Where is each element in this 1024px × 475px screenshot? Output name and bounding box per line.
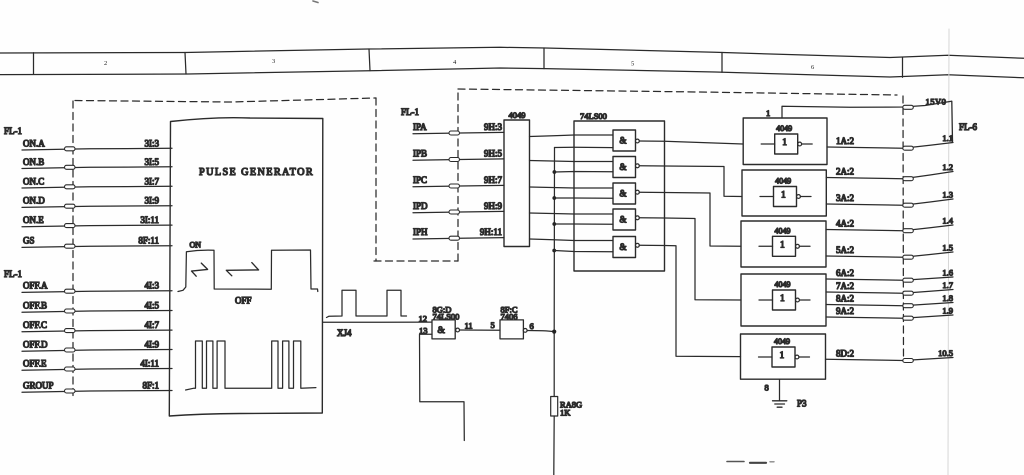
wire OFF.A	[22, 291, 172, 293]
svg-text:1.8: 1.8	[942, 293, 953, 303]
buffer U2A input stub	[760, 196, 774, 198]
wire U5A pin 8 to ground	[779, 379, 781, 400]
buffer U4A (4049) box	[741, 274, 826, 326]
svg-text:1: 1	[766, 108, 770, 118]
wire OFF.B	[22, 311, 172, 313]
svg-text:FL-1: FL-1	[4, 269, 22, 279]
connector pin symbol 3A:2	[903, 203, 914, 207]
svg-text:OFF.E: OFF.E	[23, 359, 47, 369]
FL-6 connector dashed boundary	[902, 96, 905, 361]
buffer U3A output stub	[800, 245, 811, 247]
buffer U1A input stub	[761, 143, 775, 145]
border zone tick 6	[902, 58, 904, 77]
waveform ON/OFF	[178, 250, 318, 292]
connector pin symbol OFF.B	[65, 309, 76, 313]
wire enable branch to G3	[554, 197, 613, 199]
svg-text:1.2: 1.2	[942, 162, 953, 172]
svg-text:7406: 7406	[501, 312, 518, 322]
gate G3 output bubble	[636, 190, 640, 194]
connector pin symbol 5A:2	[903, 255, 914, 259]
svg-text:1.1: 1.1	[942, 133, 953, 143]
NAND gate G2 box	[613, 157, 636, 178]
svg-text:9H:9: 9H:9	[484, 201, 503, 211]
gate G4 output bubble	[636, 216, 640, 220]
svg-text:6A:2: 6A:2	[836, 268, 854, 278]
svg-text:1.3: 1.3	[942, 190, 953, 200]
connector pin symbol ON.A	[65, 147, 76, 151]
svg-text:3: 3	[272, 58, 275, 65]
svg-text:4I:3: 4I:3	[145, 281, 160, 291]
buffer U3A (4049) box	[741, 221, 826, 267]
scan mark bottom 3	[770, 461, 774, 463]
svg-text:3I:11: 3I:11	[140, 215, 159, 225]
ground symbol	[773, 401, 787, 407]
svg-text:4I:7: 4I:7	[145, 320, 160, 330]
svg-text:1.5: 1.5	[942, 243, 953, 253]
connector pin symbol 8A:2	[903, 304, 914, 308]
buffer U3A output bubble	[796, 244, 800, 248]
svg-text:74LS00: 74LS00	[433, 312, 460, 322]
connector pin symbol OFF.E	[65, 367, 76, 371]
IC U-74LS00 block box	[574, 121, 665, 271]
wire 4049 output 2 to NAND input	[530, 161, 614, 162]
wire IPH	[413, 238, 504, 239]
gate 8G:D output bubble	[456, 328, 460, 332]
pulse generator block U-PG	[169, 118, 322, 416]
wire gate output 11 to 7406 pin 5	[460, 329, 501, 331]
wire GS	[22, 246, 172, 248]
page fold line	[948, 29, 949, 475]
svg-text:PULSE GENERATOR: PULSE GENERATOR	[199, 167, 314, 178]
svg-text:4049: 4049	[775, 280, 791, 289]
NAND gate G1 box	[613, 130, 636, 151]
connector pin symbol IPH	[449, 236, 460, 240]
svg-text:&: &	[620, 189, 627, 199]
buffer U5A (4049) box	[741, 334, 826, 379]
svg-text:IPB: IPB	[413, 149, 427, 159]
wire G1 output to U1A	[639, 141, 743, 144]
svg-text:8: 8	[765, 383, 769, 393]
connector pin symbol 9A:2	[903, 316, 914, 320]
svg-text:3A:2: 3A:2	[836, 193, 854, 203]
svg-text:4049: 4049	[775, 226, 791, 235]
junction node g3 input	[552, 196, 556, 200]
connector pin symbol 7A:2	[903, 291, 914, 295]
svg-text:1.7: 1.7	[942, 280, 953, 290]
svg-text:3I:7: 3I:7	[145, 176, 160, 186]
wire 4049 output 5 to NAND input	[530, 239, 614, 241]
buffer U2A (4049) box	[742, 170, 826, 216]
connector pin symbol 2A:2	[903, 177, 914, 181]
wire enable branch to G5	[554, 251, 613, 252]
wire 8D:2	[826, 358, 954, 361]
svg-text:12: 12	[419, 314, 428, 324]
svg-text:9H:7: 9H:7	[484, 175, 503, 185]
wire 1A:2	[827, 143, 953, 149]
connector pin symbol GROUP	[65, 389, 76, 393]
svg-text:1: 1	[780, 294, 785, 304]
connector pin symbol IPA	[449, 131, 460, 135]
gate G1 output bubble	[636, 139, 640, 143]
wire IPA	[413, 132, 504, 133]
buffer 8F:C output bubble	[523, 329, 527, 333]
svg-text:OFF.B: OFF.B	[23, 301, 47, 311]
wire 8A:2	[826, 303, 953, 306]
junction node N1	[552, 330, 556, 334]
svg-text:8F:1: 8F:1	[142, 381, 159, 391]
dashed box top edge right section	[458, 89, 897, 95]
svg-text:4049: 4049	[509, 110, 526, 120]
connector pin symbol 6A:2	[903, 278, 914, 282]
buffer U8F:C box	[500, 320, 523, 339]
border zone tick 3	[369, 49, 370, 71]
wire G4 output to U4A	[639, 218, 741, 300]
wire G3 output to U3A	[639, 192, 741, 246]
svg-text:IPA: IPA	[413, 122, 427, 132]
svg-text:IPH: IPH	[413, 227, 428, 237]
svg-text:OFF.C: OFF.C	[23, 320, 47, 330]
wire ON.A	[22, 148, 172, 150]
connector pin symbol OFF.C	[65, 329, 76, 333]
connector pin symbol IPB	[449, 158, 460, 162]
wire resistor to sheet bottom	[553, 416, 555, 475]
svg-text:1.4: 1.4	[942, 216, 953, 226]
svg-text:XJ4: XJ4	[337, 328, 352, 338]
svg-text:1.6: 1.6	[942, 268, 953, 278]
wire enable branch to G1	[555, 146, 614, 148]
svg-text:4A:2: 4A:2	[836, 219, 854, 229]
connector pin symbol OFF.D	[65, 348, 76, 352]
wire ON.E	[22, 225, 172, 227]
buffer U5A output bubble	[795, 355, 799, 359]
buffer U2A output bubble	[797, 195, 801, 199]
wire IPC	[413, 185, 504, 186]
border zone tick 4	[543, 48, 545, 69]
wire OFF.E	[22, 369, 172, 371]
wire ON.B	[22, 167, 172, 169]
NAND gate G3 box	[613, 183, 636, 204]
svg-text:1.9: 1.9	[942, 306, 953, 316]
svg-text:74LS00: 74LS00	[580, 111, 607, 121]
svg-text:6: 6	[530, 321, 534, 331]
NAND gate G5 box	[613, 237, 636, 258]
svg-text:4I:9: 4I:9	[145, 340, 160, 350]
svg-text:ON.C: ON.C	[23, 176, 44, 186]
svg-text:3I:9: 3I:9	[145, 196, 160, 206]
svg-text:IPD: IPD	[413, 201, 428, 211]
buffer U5A input stub	[759, 356, 773, 358]
svg-text:FL-1: FL-1	[401, 107, 419, 117]
svg-text:ON.B: ON.B	[23, 157, 44, 167]
border zone tick 1	[33, 53, 35, 75]
wire enable branch to G2	[554, 171, 613, 174]
svg-text:4I:11: 4I:11	[140, 359, 159, 369]
border zone tick 5	[721, 53, 723, 73]
svg-text:3I:3: 3I:3	[145, 138, 160, 148]
NAND gate U8G:D box	[432, 320, 455, 339]
svg-text:&: &	[620, 162, 627, 172]
connector pin symbol 4A:2	[903, 229, 914, 233]
connector pin symbol OFF.A	[65, 289, 76, 293]
sheet border strip upper line	[0, 47, 1024, 58]
svg-text:FL-1: FL-1	[4, 126, 22, 136]
top edge speck	[313, 1, 318, 3]
wire 4049 output 4 to NAND input	[530, 213, 614, 214]
svg-text:P3: P3	[797, 399, 807, 409]
svg-text:ON.D: ON.D	[23, 196, 45, 206]
junction node g4 input	[552, 222, 556, 226]
svg-text:OFF: OFF	[235, 296, 252, 306]
wire sheet edge vertical	[951, 101, 954, 141]
svg-text:5A:2: 5A:2	[836, 245, 854, 255]
svg-text:6: 6	[811, 64, 815, 71]
FL-1 (IP) dashed boundary vertical	[457, 89, 459, 261]
dashed box bottom edge	[374, 260, 458, 262]
buffer U5A inner symbol box	[772, 347, 795, 367]
wire 3A:2	[826, 199, 953, 205]
buffer U1A inner symbol box	[775, 134, 798, 154]
wire 5A:2	[826, 252, 953, 257]
svg-text:3I:5: 3I:5	[145, 157, 160, 167]
wire enable branch to G4	[554, 223, 613, 225]
buffer U4A input stub	[759, 299, 773, 301]
svg-text:9A:2: 9A:2	[836, 306, 854, 316]
svg-text:IPC: IPC	[413, 175, 427, 185]
break arrow 1	[192, 263, 208, 276]
wire G2 output to U2A	[639, 166, 742, 197]
svg-text:11: 11	[465, 321, 473, 331]
wire pin13 feedback	[420, 334, 465, 440]
svg-text:1K: 1K	[560, 408, 571, 418]
scan mark bottom 2	[750, 462, 766, 464]
wire 4049 output 3 to NAND input	[530, 187, 614, 188]
connector pin symbol 1A:2	[903, 146, 914, 150]
svg-text:ON.A: ON.A	[23, 138, 45, 148]
wire pin 6 to node N1	[527, 331, 554, 332]
buffer U4A inner symbol box	[773, 290, 796, 310]
sheet border strip lower line	[0, 68, 1024, 78]
svg-text:OFF.D: OFF.D	[23, 340, 48, 350]
buffer U3A input stub	[759, 245, 773, 247]
wire ON.C	[22, 186, 172, 188]
buffer U2A inner symbol box	[774, 187, 797, 207]
connector pin symbol IPD	[449, 210, 460, 214]
svg-text:2: 2	[104, 60, 107, 67]
svg-text:1: 1	[780, 351, 785, 361]
svg-text:4049: 4049	[774, 337, 790, 346]
svg-text:9H:3: 9H:3	[484, 122, 503, 132]
wire IPD	[413, 211, 504, 212]
svg-text:8A:2: 8A:2	[836, 294, 854, 304]
svg-text:4049: 4049	[775, 177, 791, 186]
resistor RA8G body	[551, 397, 558, 417]
wire 2A:2	[826, 172, 953, 179]
svg-text:9H:5: 9H:5	[484, 149, 503, 159]
FL-1 dashed box top edge	[75, 98, 376, 102]
NAND gate G4 box	[613, 209, 636, 230]
buffer U5A output stub	[799, 356, 810, 358]
svg-text:&: &	[438, 326, 446, 336]
FL-1 dashed box right edge	[375, 98, 377, 261]
wire ON.D	[22, 206, 172, 208]
svg-text:FL-6: FL-6	[959, 122, 978, 132]
svg-text:1: 1	[780, 241, 785, 251]
gate G2 output bubble	[636, 164, 640, 168]
buffer U1A output stub	[802, 143, 813, 145]
svg-text:GROUP: GROUP	[23, 381, 54, 391]
buffer U4A output stub	[800, 299, 811, 301]
gate G5 output bubble	[636, 243, 640, 247]
svg-text:1: 1	[781, 191, 786, 201]
svg-text:2A:2: 2A:2	[836, 167, 854, 177]
connector pin symbol GS	[65, 244, 76, 248]
svg-text:7A:2: 7A:2	[836, 281, 854, 291]
junction node g2 input	[553, 170, 557, 174]
svg-text:10.5: 10.5	[938, 348, 953, 358]
wire IPB	[413, 159, 504, 160]
connector pin symbol ON.B	[65, 165, 76, 169]
svg-text:GS: GS	[23, 236, 35, 246]
connector pin symbol ON.E	[65, 224, 76, 228]
svg-text:8D:2: 8D:2	[836, 348, 854, 358]
wire 6A:2	[826, 277, 953, 280]
svg-text:ON: ON	[190, 241, 202, 250]
svg-text:&: &	[620, 242, 627, 252]
buffer U1A (4049) box	[743, 118, 827, 165]
svg-text:5: 5	[631, 61, 634, 68]
svg-text:1A:2: 1A:2	[836, 136, 854, 146]
wire 4049 output 1 to NAND input	[530, 135, 614, 137]
svg-text:9H:11: 9H:11	[480, 227, 502, 237]
svg-text:&: &	[620, 215, 627, 225]
connector pin symbol IPC	[449, 184, 460, 188]
wire 4A:2	[826, 225, 953, 231]
waveform XJ4 pulses	[327, 290, 407, 317]
buffer U2A output stub	[801, 196, 812, 198]
connector pin symbol 15V0	[903, 105, 914, 109]
wire GROUP	[22, 391, 172, 393]
buffer U-4049 (input) box	[504, 120, 530, 247]
svg-text:4049: 4049	[776, 124, 792, 133]
break arrow 2	[226, 263, 258, 276]
connector pin symbol ON.C	[65, 185, 76, 189]
svg-text:1: 1	[782, 138, 787, 148]
connector pin symbol ON.D	[65, 204, 76, 208]
wire XJ4	[323, 321, 432, 323]
svg-text:4: 4	[453, 59, 457, 66]
svg-text:ON.E: ON.E	[23, 215, 44, 225]
border zone tick 2	[185, 53, 186, 75]
scan mark bottom 1	[727, 461, 744, 463]
svg-text:4I:5: 4I:5	[145, 301, 160, 311]
wire OFF.D	[22, 350, 172, 352]
svg-text:8F:11: 8F:11	[138, 236, 159, 246]
wire 15V0 supply	[782, 101, 952, 118]
buffer U3A inner symbol box	[773, 236, 796, 256]
wire common enable vertical	[553, 148, 555, 397]
wire 7A:2	[826, 290, 953, 294]
svg-text:&: &	[620, 136, 627, 146]
svg-text:15V0: 15V0	[926, 97, 947, 107]
buffer U4A output bubble	[796, 298, 800, 302]
buffer U1A output bubble	[798, 142, 802, 146]
svg-text:OFF.A: OFF.A	[23, 281, 48, 291]
junction node g5 input	[552, 249, 556, 253]
FL-1 connector dashed boundary (left)	[72, 101, 74, 400]
waveform burst	[186, 341, 316, 390]
wire 9A:2	[826, 315, 953, 318]
connector pin symbol 8D:2	[903, 359, 914, 363]
svg-text:5: 5	[491, 320, 495, 330]
wire G5 output to U5A	[639, 245, 740, 356]
wire OFF.C	[22, 330, 172, 332]
